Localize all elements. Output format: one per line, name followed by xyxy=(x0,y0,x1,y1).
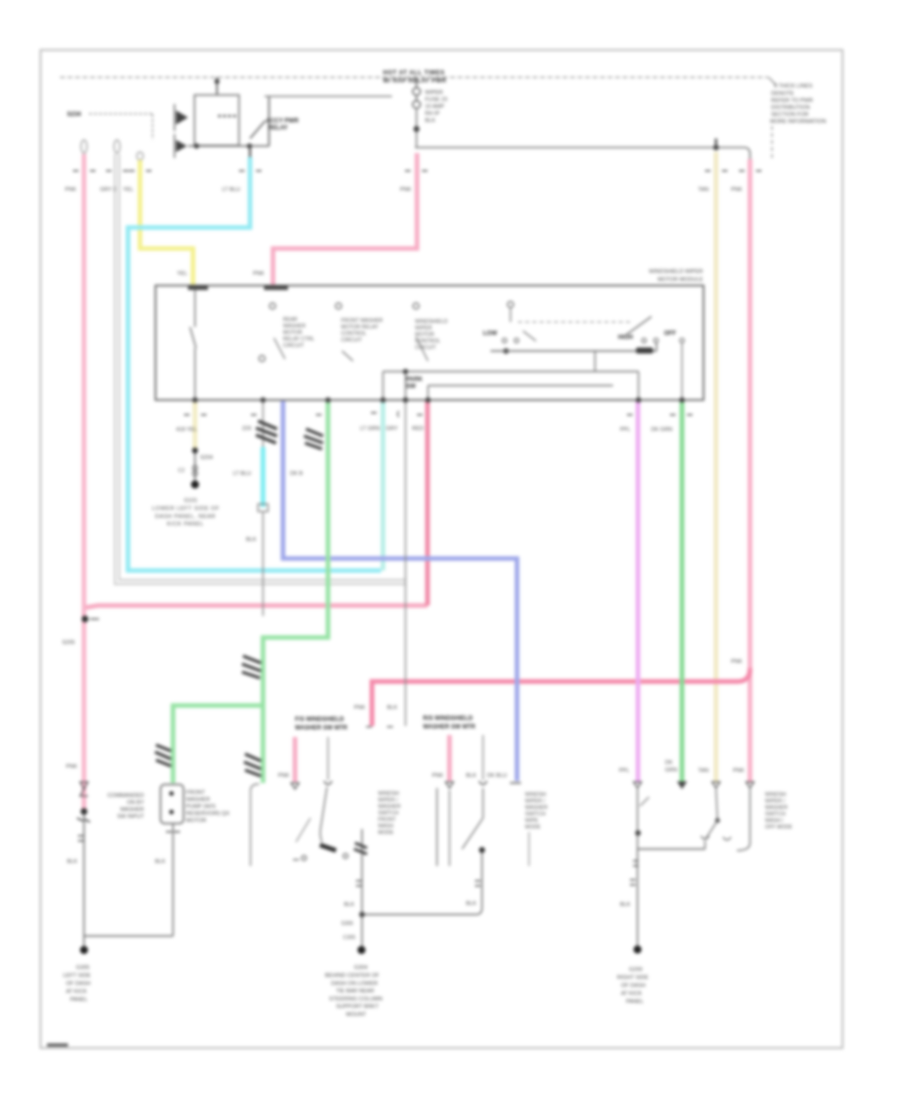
svg-text:F/S WINDSHIELD: F/S WINDSHIELD xyxy=(295,717,345,723)
wire x263: LT BLU segment xyxy=(261,447,266,507)
svg-text:WASH /: WASH / xyxy=(765,818,784,824)
svg-text:DK BLU: DK BLU xyxy=(487,773,507,779)
hatch on x362 xyxy=(354,843,367,854)
svg-text:5 THICK LINES: 5 THICK LINES xyxy=(774,84,813,90)
park feedback line lower xyxy=(428,385,613,387)
svg-text:BLK: BLK xyxy=(466,773,477,779)
rear sw common xyxy=(638,848,706,850)
svg-text:BLK: BLK xyxy=(466,901,477,907)
wire LT BLU from relay: jog left and down to y570 xyxy=(128,157,381,571)
relay U1 coil box xyxy=(195,95,240,146)
bus: HOT AT ALL TIMES dashed line xyxy=(60,76,768,78)
svg-text:WASHER: WASHER xyxy=(186,797,210,803)
svg-text:MOTOR: MOTOR xyxy=(415,332,434,338)
riser gray entry with dot xyxy=(405,372,407,401)
riser to common xyxy=(656,343,658,352)
wire x263: gray lower segment xyxy=(262,511,264,616)
ticks xyxy=(633,860,639,862)
svg-text:PANEL: PANEL xyxy=(70,997,88,1003)
connector dashes xyxy=(356,880,362,882)
svg-text:HIGH: HIGH xyxy=(618,335,633,341)
connector ticks below pump xyxy=(166,831,172,833)
svg-text:FRONT: FRONT xyxy=(186,790,206,796)
svg-text:LT BLU: LT BLU xyxy=(233,471,251,477)
svg-text:SWITCH: SWITCH xyxy=(378,811,399,817)
svg-text:PNK: PNK xyxy=(432,773,444,779)
hatch connector on green x263 upper xyxy=(242,656,261,678)
arm under TB1 xyxy=(274,338,285,359)
right arm xyxy=(626,317,652,336)
break tick xyxy=(640,797,649,806)
svg-text:BEHIND CENTER OF: BEHIND CENTER OF xyxy=(325,973,380,979)
svg-text:STEERING COLUMN: STEERING COLUMN xyxy=(329,996,383,1002)
tan tap stub xyxy=(715,139,717,148)
tick x383 xyxy=(371,412,377,414)
connector dashes xyxy=(630,879,636,881)
hatch connector on green x173 xyxy=(155,745,171,766)
svg-text:WASH: WASH xyxy=(378,824,394,830)
contact blob on common line xyxy=(636,348,653,354)
svg-text:CIRCUIT: CIRCUIT xyxy=(415,345,437,351)
svg-text:MOTOR RELAY: MOTOR RELAY xyxy=(341,325,379,331)
stub xyxy=(510,308,512,323)
relay coil left terminal arrow xyxy=(176,111,188,125)
relay right leg xyxy=(268,96,270,146)
tick x263 below box xyxy=(251,414,257,416)
contact circles xyxy=(502,338,506,342)
tick C pair x84 xyxy=(73,170,79,172)
wire PNK branch to box (RED riser) xyxy=(86,606,428,608)
splice dot below fuse xyxy=(414,126,420,132)
hatch connector on green x263 lower xyxy=(244,754,261,776)
wire PNK A: x84 long vertical xyxy=(82,154,87,812)
tick x682 xyxy=(670,414,676,416)
switch wiper thick bar xyxy=(320,845,336,851)
svg-text:YEL: YEL xyxy=(177,271,187,277)
tick pair x195 below box xyxy=(184,414,190,416)
contact circle under pink xyxy=(270,303,276,309)
pump terminals xyxy=(169,791,174,796)
contact riser xyxy=(701,836,709,849)
svg-text:G101: G101 xyxy=(184,498,197,504)
svg-text:RH IP: RH IP xyxy=(425,111,440,117)
svg-text:PNK: PNK xyxy=(731,659,743,665)
svg-text:PNK: PNK xyxy=(65,187,77,193)
wire LT GRN riser into box xyxy=(381,401,386,571)
svg-text:WASHER: WASHER xyxy=(525,805,548,811)
pivot dot xyxy=(479,847,485,853)
contact circle xyxy=(343,854,348,859)
ground dot G xyxy=(191,481,199,489)
contact circle TB3 xyxy=(413,303,419,309)
wire PNK D: branch from x750 to washer switch xyxy=(372,668,750,726)
tick marks wire ends xyxy=(387,726,393,728)
ground link horizontal xyxy=(84,935,173,937)
connector oval C2 xyxy=(114,140,120,153)
svg-text:RELAY: RELAY xyxy=(268,126,288,132)
svg-text:PPL: PPL xyxy=(620,427,630,433)
svg-text:TAN: TAN xyxy=(698,187,709,193)
svg-text:TAN: TAN xyxy=(698,768,709,774)
tick pair x117 xyxy=(106,170,112,172)
legend dashed vertical xyxy=(771,126,773,158)
wire DK GRN G1: box to washer pump xyxy=(263,401,328,783)
pin blob pink entry xyxy=(264,286,288,291)
tick pair x716 xyxy=(705,170,711,172)
ground dot left xyxy=(80,946,88,954)
switch 2 arm xyxy=(462,818,483,849)
splice dot PNK A lower xyxy=(81,808,88,815)
lead to ground bus xyxy=(362,853,482,915)
terminal cup xyxy=(479,781,487,785)
dashed leader vertical xyxy=(152,114,154,140)
svg-text:LOWER LEFT SIDE OF: LOWER LEFT SIDE OF xyxy=(152,506,220,512)
riser park to ppl exit xyxy=(638,372,640,401)
dashed detent line xyxy=(518,321,631,323)
svg-text:MORE INFORMATION: MORE INFORMATION xyxy=(770,119,826,125)
svg-text:ON BY: ON BY xyxy=(127,800,144,806)
svg-text:WASHER: WASHER xyxy=(283,324,306,330)
svg-text:GRN: GRN xyxy=(665,768,677,774)
svg-text:KICK PANEL: KICK PANEL xyxy=(167,522,204,528)
svg-text:WINDSHIELD: WINDSHIELD xyxy=(415,319,448,325)
svg-text:PNK: PNK xyxy=(354,705,366,711)
terminal cup xyxy=(324,781,332,785)
junction dot xyxy=(194,143,199,148)
tick x428 xyxy=(417,414,423,416)
lead xyxy=(482,788,484,818)
svg-text:CIRCUIT: CIRCUIT xyxy=(283,343,305,349)
svg-text:S204: S204 xyxy=(200,455,213,461)
svg-text:SECTION FOR: SECTION FOR xyxy=(771,112,809,118)
svg-text:DASH ON LOWER: DASH ON LOWER xyxy=(331,981,378,987)
svg-text:WIPER /: WIPER / xyxy=(525,799,545,805)
relay feed stub xyxy=(216,77,218,95)
svg-text:PPL: PPL xyxy=(619,768,629,774)
svg-text:TIE BAR NEAR: TIE BAR NEAR xyxy=(336,989,374,995)
junction dot xyxy=(503,348,509,354)
contact circle xyxy=(336,303,342,309)
svg-text:LT BLU: LT BLU xyxy=(222,187,240,193)
junction dot tan tap xyxy=(713,145,719,151)
relay lower terminal arrow xyxy=(176,140,187,152)
svg-text:SW INPUT: SW INPUT xyxy=(117,814,145,820)
pink stub 2 xyxy=(447,735,452,781)
common line xyxy=(491,350,657,352)
svg-text:WASHER SW MTR: WASHER SW MTR xyxy=(423,725,476,731)
svg-text:HOT AT ALL TIMES: HOT AT ALL TIMES xyxy=(383,71,445,77)
svg-text:S205: S205 xyxy=(62,640,75,646)
ground dot right xyxy=(634,946,642,954)
svg-text:OF DASH: OF DASH xyxy=(66,981,90,987)
fuse F1 xyxy=(413,88,421,96)
terminal fork xyxy=(446,782,454,788)
svg-text:WINDSHIELD WIPER: WINDSHIELD WIPER xyxy=(649,269,703,275)
contact circles right xyxy=(642,338,646,342)
svg-text:SWITCH: SWITCH xyxy=(765,812,786,818)
connector symbol on PNK A xyxy=(80,782,88,796)
svg-text:REFER TO PWR: REFER TO PWR xyxy=(771,98,813,104)
svg-text:RIGHT SIDE: RIGHT SIDE xyxy=(617,975,649,981)
svg-text:G304: G304 xyxy=(354,965,367,971)
tick pair x750 xyxy=(739,170,745,172)
terminal forks rear switch xyxy=(634,782,642,788)
wire YEL stub below box xyxy=(193,401,198,450)
svg-text:MODE: MODE xyxy=(525,825,541,831)
wire DK BLU: from box bottom to wiper switch xyxy=(283,401,517,781)
svg-text:DISTRIBUTION: DISTRIBUTION xyxy=(771,105,810,111)
bottom edge junction dots xyxy=(192,397,197,402)
junction dot ground bus xyxy=(359,912,365,918)
junction dot xyxy=(247,143,252,148)
svg-text:MOTOR MODULE: MOTOR MODULE xyxy=(658,277,704,283)
svg-text:PNK: PNK xyxy=(66,764,78,770)
svg-text:10 AMP: 10 AMP xyxy=(425,104,445,110)
svg-text:BLK: BLK xyxy=(425,118,436,124)
wire fuse down to feed line xyxy=(416,108,418,148)
svg-text:CONTROL: CONTROL xyxy=(341,331,366,337)
wire GRY white band: x117 down, right to 405 xyxy=(117,154,405,582)
fuse F1 feed stub xyxy=(416,77,418,88)
wiper sw circle xyxy=(508,302,514,308)
arm under TB3 xyxy=(416,337,428,361)
svg-text:WIPER: WIPER xyxy=(425,90,443,96)
connector dashes x84 xyxy=(78,835,84,837)
svg-text:C305: C305 xyxy=(343,935,356,941)
svg-text:BLK: BLK xyxy=(67,859,78,865)
ground lead x362 xyxy=(361,829,363,950)
svg-text:BLK: BLK xyxy=(155,859,166,865)
relay coil symbol xyxy=(218,115,238,117)
svg-text:MOTOR: MOTOR xyxy=(186,818,206,824)
legend leader diagonal xyxy=(769,77,777,85)
svg-text:WIPER /: WIPER / xyxy=(378,798,398,804)
svg-text:OFF MODE: OFF MODE xyxy=(765,825,793,831)
connector double circles xyxy=(193,466,198,471)
svg-text:SWITCH: SWITCH xyxy=(525,812,546,818)
arm under TB2 xyxy=(342,351,353,361)
svg-text:WIPER /: WIPER / xyxy=(765,799,785,805)
wire black below splice xyxy=(83,815,85,950)
relay contact arm xyxy=(250,121,266,139)
wire DK GRN G2: box to rear switch xyxy=(680,401,685,783)
svg-text:R/S WINDSHIELD: R/S WINDSHIELD xyxy=(423,716,473,722)
svg-text:LOW: LOW xyxy=(483,331,497,337)
feed line to right xyxy=(415,148,750,161)
svg-text:S234: S234 xyxy=(67,112,82,118)
svg-text:RED: RED xyxy=(412,426,424,432)
svg-text:PNK: PNK xyxy=(733,768,745,774)
junction dot on bus xyxy=(215,79,220,84)
hatch connector blob x263-283 xyxy=(256,421,277,443)
page number label xyxy=(47,1044,68,1047)
svg-text:W/ RAP RELAY PWR: W/ RAP RELAY PWR xyxy=(383,79,447,85)
rear ground lead xyxy=(637,849,639,949)
svg-text:PNK: PNK xyxy=(731,187,743,193)
splice dot xyxy=(192,448,198,454)
svg-text:LT GRN: LT GRN xyxy=(360,426,380,432)
wire x405 gray down to washer switch area xyxy=(405,401,407,726)
svg-text:GRY 2: GRY 2 xyxy=(100,187,116,193)
module box M1 xyxy=(156,286,704,401)
connector oval C1 xyxy=(81,140,87,153)
pink stub washer sw xyxy=(293,737,298,782)
bracket line xyxy=(528,832,530,866)
wire DK GRN G1 branch left leg xyxy=(173,706,263,784)
svg-text:PUMP (W/S: PUMP (W/S xyxy=(186,804,216,810)
arm xyxy=(523,331,536,341)
contact circle xyxy=(302,856,307,861)
terminal fork xyxy=(291,783,299,789)
svg-text:REAR: REAR xyxy=(283,317,298,323)
svg-text:S306: S306 xyxy=(341,921,353,927)
svg-text:WIPER: WIPER xyxy=(415,326,432,332)
pin blob yellow entry xyxy=(188,286,208,291)
svg-text:MOTOR: MOTOR xyxy=(283,330,302,336)
svg-text:DASH PANEL, NEAR: DASH PANEL, NEAR xyxy=(155,514,216,520)
svg-text:FRONT: FRONT xyxy=(378,817,397,823)
washer sw input lead xyxy=(327,737,329,780)
contact circle xyxy=(259,356,265,362)
wire black below pump xyxy=(172,824,174,936)
internal vertical from yellow pin xyxy=(194,290,196,327)
svg-text:PNK: PNK xyxy=(278,773,290,779)
splice dot PNK A branch xyxy=(82,616,89,623)
svg-text:YEL: YEL xyxy=(123,187,133,193)
svg-text:DK: DK xyxy=(665,760,673,766)
rear sw ppl lead xyxy=(637,789,639,849)
svg-text:BLK: BLK xyxy=(387,705,398,711)
riser red entry xyxy=(427,386,429,401)
svg-text:CIRCUIT: CIRCUIT xyxy=(341,338,363,344)
switch 2 input lead xyxy=(482,735,484,780)
park feedback line upper xyxy=(383,371,639,373)
wire YEL: x140 down right into box top xyxy=(140,160,193,286)
tick pair x140 xyxy=(129,170,135,172)
svg-text:ACCY PWR: ACCY PWR xyxy=(266,119,299,125)
svg-text:DK B: DK B xyxy=(290,471,303,477)
tick xyxy=(293,859,299,861)
tick x638 xyxy=(627,414,633,416)
riser cyan entry xyxy=(382,372,384,401)
svg-text:WASHER: WASHER xyxy=(765,805,788,811)
wire PPL: box to rear switch xyxy=(636,401,641,783)
tick x405 xyxy=(398,411,400,417)
svg-text:DENOTE: DENOTE xyxy=(771,91,794,97)
svg-text:LEFT SIDE: LEFT SIDE xyxy=(63,973,91,979)
svg-text:G200: G200 xyxy=(629,967,642,973)
svg-text:RELAY CTRL: RELAY CTRL xyxy=(283,337,315,343)
svg-text:PNK: PNK xyxy=(400,187,412,193)
connector dashes x482 xyxy=(475,880,481,882)
svg-text:DK GRN: DK GRN xyxy=(651,427,672,433)
svg-text:WASHER: WASHER xyxy=(378,804,401,810)
open contact arc xyxy=(723,837,731,840)
tick pair x417 xyxy=(405,170,411,172)
svg-text:WINDSH: WINDSH xyxy=(765,792,786,798)
hatch connector blob x328 xyxy=(304,429,323,449)
wire black below yellow xyxy=(194,450,196,482)
blue terminal tick xyxy=(510,782,521,784)
svg-text:FUSE 23: FUSE 23 xyxy=(425,97,447,103)
wire x263: gray upper segment xyxy=(262,401,264,448)
svg-text:OF DASH: OF DASH xyxy=(621,983,645,989)
riser common to park line xyxy=(594,351,596,372)
svg-text:SW: SW xyxy=(406,384,416,390)
svg-text:AT KICK: AT KICK xyxy=(66,989,87,995)
dashed leader from S234 xyxy=(89,113,153,115)
svg-text:G305: G305 xyxy=(76,965,89,971)
svg-text:WIPE: WIPE xyxy=(525,818,539,824)
tick pair x250 xyxy=(239,170,245,172)
tan lead and arm xyxy=(716,789,718,820)
svg-text:SUPPORT BRKT: SUPPORT BRKT xyxy=(336,1004,379,1010)
svg-text:BLK: BLK xyxy=(246,537,257,543)
green stub end gray lead x250 xyxy=(251,784,260,866)
tick x328 xyxy=(316,414,322,416)
pink lead hook xyxy=(737,789,750,851)
svg-text:WASHER SW MTR: WASHER SW MTR xyxy=(295,726,348,732)
switch arm xyxy=(320,787,327,842)
svg-text:GRY: GRY xyxy=(386,426,398,432)
svg-text:WINDSH: WINDSH xyxy=(525,792,546,798)
svg-text:OFF: OFF xyxy=(664,331,676,337)
svg-text:PNK: PNK xyxy=(253,271,265,277)
small arm near washer switch xyxy=(296,818,311,842)
washer pump motor box xyxy=(161,785,184,824)
svg-text:MODE: MODE xyxy=(378,830,394,836)
contact dot xyxy=(635,830,641,836)
svg-text:FRONT WASHER: FRONT WASHER xyxy=(341,318,383,324)
internal switch arm xyxy=(190,327,196,348)
element parallel lines xyxy=(436,788,438,866)
svg-text:229: 229 xyxy=(242,426,251,432)
svg-text:PANEL: PANEL xyxy=(626,999,644,1005)
wire relay to fuse xyxy=(265,95,393,97)
relay contact output stub xyxy=(249,146,251,157)
svg-text:C2: C2 xyxy=(178,468,185,474)
ground dot center xyxy=(358,946,366,954)
wire TAN: x716 down xyxy=(714,152,719,783)
svg-text:418 YEL: 418 YEL xyxy=(176,427,197,433)
svg-text:RESERVOIR) QX: RESERVOIR) QX xyxy=(186,811,230,817)
svg-text:COMMANDED: COMMANDED xyxy=(107,793,144,799)
svg-text:AT KICK: AT KICK xyxy=(621,991,642,997)
svg-text:MOUNT: MOUNT xyxy=(346,1012,367,1018)
svg-text:BLK: BLK xyxy=(620,902,631,908)
wire PNK B: fuse down jog into box top xyxy=(273,153,417,286)
connector oval C3 xyxy=(137,152,143,160)
wire PNK C: x750 down xyxy=(748,159,753,783)
riser green exit xyxy=(681,343,683,401)
connector on x263 xyxy=(258,504,268,512)
svg-text:WINDSH: WINDSH xyxy=(378,791,399,797)
relay bottom wire xyxy=(188,145,269,147)
svg-text:WASHER: WASHER xyxy=(120,807,144,813)
svg-text:BLK: BLK xyxy=(344,902,355,908)
svg-text:PARK: PARK xyxy=(406,377,423,383)
